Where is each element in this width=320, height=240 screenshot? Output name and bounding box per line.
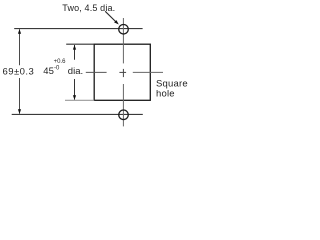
svg-text:hole: hole xyxy=(156,88,175,99)
dimension line 45 dia lower segment xyxy=(74,79,76,100)
horizontal centerline right dash xyxy=(133,71,163,73)
leader line from Two, 4.5 dia. xyxy=(105,11,116,22)
bottom mounting hole circle xyxy=(119,110,129,120)
dimension line 45 dia upper segment xyxy=(74,45,76,60)
vertical centerline lower segment xyxy=(122,84,124,126)
arrowhead up 45 dim xyxy=(73,45,76,50)
svg-text:-0: -0 xyxy=(54,66,60,72)
svg-text:+0.6: +0.6 xyxy=(54,59,67,65)
leader from dia. to square centerline xyxy=(86,71,107,73)
svg-text:69±0.3: 69±0.3 xyxy=(3,67,35,78)
dimension line 69±0.3 upper segment xyxy=(19,29,21,65)
top extension line xyxy=(14,28,142,30)
vertical centerline center dash xyxy=(122,69,124,77)
vertical centerline upper segment xyxy=(122,18,124,63)
svg-text:Two, 4.5 dia.: Two, 4.5 dia. xyxy=(62,3,115,13)
top edge extension line (left of square) xyxy=(66,43,94,45)
svg-text:45: 45 xyxy=(43,66,54,77)
dimension line 69±0.3 lower segment xyxy=(19,78,21,114)
square hole outline xyxy=(94,44,150,100)
top mounting hole circle xyxy=(119,24,129,34)
arrowhead down 45 dim xyxy=(73,95,76,100)
arrowhead down 69 dim xyxy=(18,109,21,114)
bottom edge extension line (left of square, light) xyxy=(65,99,94,101)
arrowhead up 69 dim xyxy=(18,29,21,34)
horizontal centerline center dash xyxy=(119,71,126,73)
svg-text:dia.: dia. xyxy=(68,66,83,77)
bottom extension line xyxy=(12,113,143,115)
arrowhead on leader xyxy=(114,20,119,24)
